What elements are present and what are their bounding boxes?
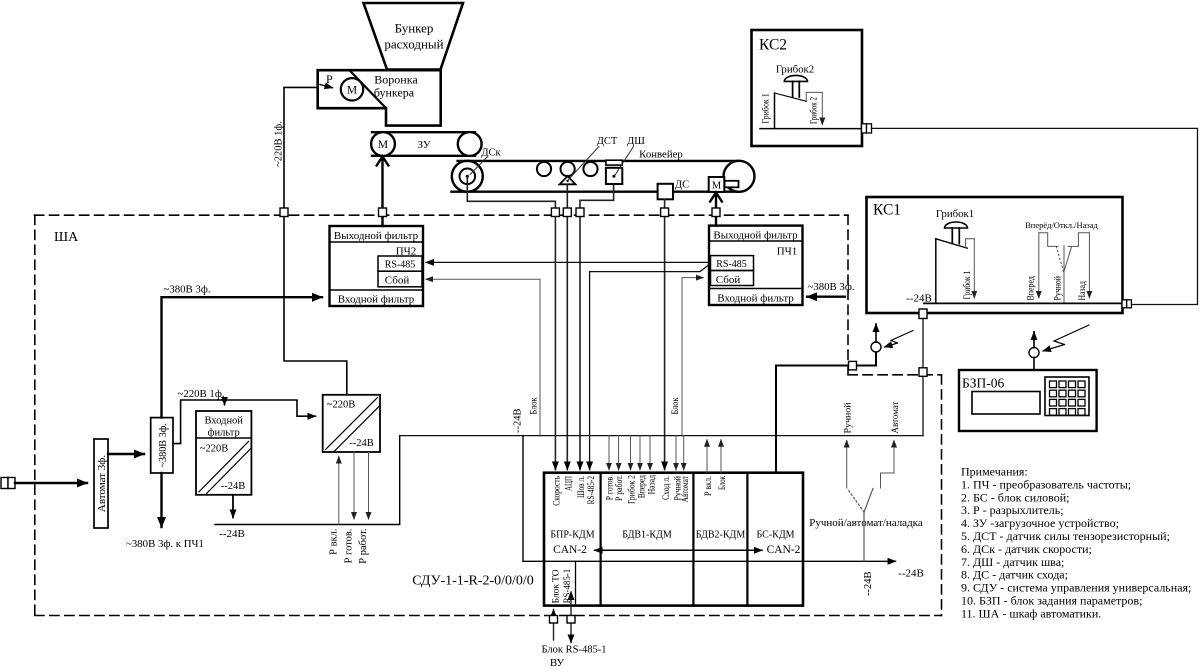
BS-KDM power feed line [776, 352, 876, 472]
bunker trapezoid (Бункер расходный) [364, 3, 464, 70]
wire DSk to SDU (Скорость) [467, 177, 555, 470]
svg-text:БДВ1-КДМ: БДВ1-КДМ [622, 530, 672, 541]
RS-485 bus PCh2 to PCh1 [432, 261, 709, 263]
svg-text:ША: ША [54, 230, 79, 245]
power supply PSU1 (Входной фильтр ~220В/--24В) [196, 411, 251, 495]
svg-text:Вперёд/Откл./Назад: Вперёд/Откл./Назад [1025, 220, 1098, 230]
svg-text:Грибок 1: Грибок 1 [962, 271, 972, 300]
hopper funnel (Воронка бункера) [318, 70, 441, 125]
svg-text:--24В: --24В [349, 438, 374, 449]
wire DST to SDU (АЦП) [566, 184, 568, 469]
svg-text:CAN-2: CAN-2 [553, 544, 587, 556]
svg-text:--24В: --24В [219, 528, 245, 540]
svg-text:~380В 3ф.: ~380В 3ф. [158, 423, 169, 467]
KC1 right connector [1122, 300, 1131, 308]
svg-text:--24В: --24В [221, 481, 246, 492]
svg-text:10. БЗП - блок задания парамет: 10. БЗП - блок задания параметров; [961, 594, 1142, 608]
frequency converter PCh2 block [330, 226, 424, 306]
svg-text:Назад: Назад [1077, 281, 1087, 301]
-24V rail through SDU with arrow [523, 560, 896, 562]
terminal boxes on ША top boundary [280, 208, 720, 217]
RS-485-1 wire up arrow [570, 592, 572, 643]
terminal on ША boundary (BS feed) [849, 361, 857, 370]
svg-text:8. ДС - датчик схода;: 8. ДС - датчик схода; [961, 568, 1068, 582]
svg-text:Грибок2: Грибок2 [776, 64, 814, 76]
svg-text:БС-КДМ: БС-КДМ [756, 530, 794, 541]
svg-text:М: М [378, 139, 388, 151]
220V branch arrow into PSU1 [224, 400, 226, 405]
380V 3ph down to PCh1 [160, 473, 162, 527]
svg-text:RS-485: RS-485 [385, 260, 416, 271]
svg-text:7. ДШ - датчик шва;: 7. ДШ - датчик шва; [961, 555, 1064, 569]
svg-text:Шов л.: Шов л. [577, 476, 587, 498]
svg-text:Р работ.: Р работ. [614, 475, 625, 501]
svg-text:~220В: ~220В [327, 400, 355, 411]
svg-text:ЗУ: ЗУ [417, 139, 430, 151]
seam sensor DSh (bar + box with dot) [606, 160, 622, 165]
svg-text:1. ПЧ - преобразователь частот: 1. ПЧ - преобразователь частоты; [961, 477, 1131, 491]
radio link symbol near KC1 [871, 342, 881, 352]
svg-text:М: М [712, 181, 722, 192]
BDV1 input stubs from common line [609, 436, 684, 465]
svg-text:ПЧ2: ПЧ2 [396, 246, 417, 258]
svg-text:Вперед: Вперед [637, 475, 647, 498]
svg-text:Воронка: Воронка [374, 73, 418, 87]
speed sensor pulley DSk [452, 161, 483, 192]
svg-text:ВУ: ВУ [550, 657, 564, 668]
KC2 bottom common line [760, 128, 862, 130]
svg-text:Грибок1: Грибок1 [936, 208, 974, 220]
wire DS to SDU (Сход л.) [664, 199, 666, 468]
svg-text:11. ША - шкаф автоматики.: 11. ША - шкаф автоматики. [961, 606, 1101, 620]
svg-text:БПР-КДМ: БПР-КДМ [550, 530, 594, 541]
svg-text:Р работ.: Р работ. [358, 529, 369, 564]
svg-text:--24В: --24В [898, 568, 924, 580]
Блок ТО sub-box divider [575, 561, 577, 605]
power supply PSU2 (~220В/--24В) [323, 395, 380, 452]
svg-text:Выходной фильтр: Выходной фильтр [713, 230, 798, 242]
svg-text:КС2: КС2 [759, 37, 787, 54]
remote station KC2 box [752, 30, 863, 146]
svg-text:Примечания:: Примечания: [961, 465, 1028, 479]
svg-text:КС1: КС1 [873, 202, 901, 219]
svg-text:~220В 1ф.: ~220В 1ф. [274, 121, 285, 167]
wire DSh to SDU (Шов л.) [580, 184, 614, 468]
svg-text:ДСТ: ДСТ [597, 136, 618, 147]
svg-text:Скорость: Скорость [553, 475, 563, 505]
БЗП keypad [1045, 377, 1089, 416]
svg-text:Входной фильтр: Входной фильтр [338, 294, 415, 306]
operator station KC1 box [867, 197, 1123, 313]
svg-text:9. СДУ - система управления ун: 9. СДУ - система управления универсальна… [961, 581, 1191, 595]
svg-text:Ручной: Ручной [1053, 276, 1063, 301]
svg-text:Вперед: Вперед [1026, 276, 1036, 301]
svg-text:ДС: ДС [675, 180, 689, 191]
mains input arrow [15, 482, 87, 484]
svg-text:Сбой: Сбой [716, 274, 741, 286]
conveyor rollers [537, 162, 598, 176]
svg-text:Грибок 1: Грибок 1 [761, 93, 771, 123]
KC1 bottom common line [924, 302, 1122, 304]
svg-text:Назад: Назад [647, 475, 657, 495]
svg-text:Р вкл.: Р вкл. [328, 529, 339, 555]
frequency converter PCh1 block [709, 226, 803, 305]
svg-text:CAN-2: CAN-2 [767, 544, 801, 556]
terminal on ША boundary (KC1 wire) [919, 368, 927, 377]
wire ~220V 1ph to voronka motor [284, 87, 347, 394]
ZU belt (загрузочное устройство) [371, 132, 482, 156]
svg-text:Р готов.: Р готов. [344, 529, 355, 564]
terminals on ША bottom boundary [550, 616, 576, 624]
svg-text:АЦП: АЦП [564, 476, 574, 491]
arrow from PCh2 output filter up to ZU motor [381, 157, 383, 227]
svg-text:Блок: Блок [529, 397, 539, 415]
Сбой line to PCh2 [426, 279, 540, 435]
-24V rail left [215, 436, 400, 525]
arrow from PCh1 output filter up to conveyor motor [715, 193, 717, 226]
Сбой line to PCh1 [682, 278, 703, 436]
relay signal Р готов. [353, 452, 355, 519]
svg-text:фильтр: фильтр [208, 428, 240, 439]
svg-text:Р: Р [326, 72, 333, 86]
relay signal Р работ. [368, 452, 370, 519]
svg-text:БДВ2-КДМ: БДВ2-КДМ [696, 530, 746, 541]
KC1 wire down to common line [922, 319, 924, 436]
svg-text:Ручной/автомат/наладка: Ручной/автомат/наладка [809, 517, 923, 529]
svg-text:RS-485: RS-485 [716, 259, 747, 270]
conveyor belt (Конвейер) [452, 161, 755, 192]
SDU control unit outer box [544, 473, 803, 606]
svg-text:ПЧ1: ПЧ1 [777, 246, 798, 258]
KC2 right connector [862, 124, 872, 133]
radio link symbol above БЗП [1029, 348, 1039, 358]
RS-485 branch to SDU (RS-485-2) [590, 265, 709, 469]
mushroom button Грибок2 [784, 75, 807, 81]
svg-text:Выходной фильтр: Выходной фильтр [334, 230, 419, 242]
arrow breaker to 380V unit [108, 453, 144, 455]
dashed enclosure ША boundary [35, 215, 942, 615]
svg-text:М: М [347, 85, 357, 97]
BPR input arrows into SDU top [554, 462, 556, 470]
notes list (Примечания) [961, 465, 1191, 621]
svg-text:БЗП-06: БЗП-06 [962, 376, 1005, 391]
380V 3ph riser to PCh2 [162, 297, 323, 417]
motor M of loosener (razrykhlitel) [341, 78, 363, 100]
svg-text:Входной фильтр: Входной фильтр [717, 293, 794, 305]
Блок ТО wire down [553, 610, 555, 641]
svg-text:--24В: --24В [513, 409, 524, 434]
svg-text:Автомат: Автомат [891, 401, 901, 434]
svg-text:ДСк: ДСк [481, 148, 501, 159]
220V 1ph wire [173, 400, 316, 444]
svg-text:~220В: ~220В [200, 444, 228, 455]
svg-text:5. ДСТ - датчик силы тензорези: 5. ДСТ - датчик силы тензорезисторный; [961, 529, 1170, 543]
svg-text:Блок RS-485-1: Блок RS-485-1 [542, 645, 607, 656]
svg-text:Конвейер: Конвейер [639, 149, 683, 161]
svg-text:Бункер: Бункер [395, 21, 434, 36]
svg-text:ДШ: ДШ [627, 136, 645, 147]
svg-text:Грибок 2: Грибок 2 [627, 475, 638, 504]
svg-text:бункера: бункера [374, 86, 415, 100]
380V 3ph distribution box [151, 418, 173, 473]
svg-text:Р готов.: Р готов. [605, 475, 615, 500]
circuit breaker Автомат 3ф. [94, 439, 108, 528]
conveyor drive motor M with shaft [725, 181, 739, 188]
PSU1 -24V output down arrow [232, 495, 234, 518]
svg-text:~380В 3ф. к ПЧ1: ~380В 3ф. к ПЧ1 [126, 538, 204, 550]
BDV2 output arrows up to common line [706, 440, 708, 473]
svg-text:Грибок 2: Грибок 2 [809, 97, 819, 124]
svg-text:Автомат: Автомат [681, 475, 691, 502]
svg-text:~380В 3ф.: ~380В 3ф. [163, 284, 210, 296]
svg-text:СДУ-1-1-R-2-0/0/0/0: СДУ-1-1-R-2-0/0/0/0 [412, 574, 534, 589]
svg-text:Ручной: Ручной [843, 403, 854, 434]
KC2 switch contact [774, 93, 776, 129]
KC1 bottom connector [919, 309, 927, 319]
svg-text:Р вкл.: Р вкл. [704, 476, 714, 496]
relay signal Р вкл. [338, 457, 340, 525]
svg-text:Блок: Блок [718, 476, 728, 490]
svg-text:Блок ТО: Блок ТО [551, 569, 561, 603]
svg-text:расходный: расходный [384, 37, 443, 52]
long -24V / signal common line [400, 435, 923, 437]
svg-text:2. БС - блок силовой;: 2. БС - блок силовой; [961, 490, 1070, 504]
svg-text:Сход л.: Сход л. [662, 476, 672, 500]
svg-text:~380В 3ф.: ~380В 3ф. [807, 281, 854, 293]
svg-text:Автомат 3ф.: Автомат 3ф. [96, 455, 108, 512]
svg-text:Сбой: Сбой [385, 275, 410, 287]
svg-text:~220В 1ф.: ~220В 1ф. [177, 388, 224, 400]
svg-text:4. ЗУ -загрузочное устройство;: 4. ЗУ -загрузочное устройство; [961, 516, 1119, 530]
svg-text:Блок: Блок [670, 397, 680, 415]
runoff sensor DS [658, 184, 673, 200]
tension sensor DST (triangle support) [560, 176, 576, 184]
wire KC2 to KC1 [872, 128, 1198, 304]
svg-text:--24В: --24В [863, 572, 874, 597]
svg-text:Входной: Входной [204, 416, 243, 427]
svg-text:3. Р - разрыхлитель;: 3. Р - разрыхлитель; [961, 503, 1064, 517]
junction dot on 220V wire [222, 398, 227, 403]
manual/auto selector (Ручной/автомат/наладка) [846, 441, 848, 488]
mains input terminal [1, 478, 15, 489]
svg-text:RS-485-2: RS-485-2 [587, 476, 597, 505]
KC1 mushroom switch contact [935, 239, 937, 304]
mushroom button Грибок1 [945, 222, 968, 228]
riser to -24V rail through SDU [522, 436, 524, 562]
parameter unit БЗП-06 [959, 370, 1097, 431]
svg-text:6. ДСк - датчик скорости;: 6. ДСк - датчик скорости; [961, 542, 1092, 556]
